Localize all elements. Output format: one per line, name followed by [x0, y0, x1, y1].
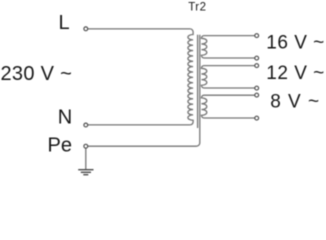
svg-text:12 V ~: 12 V ~	[266, 63, 324, 84]
core line 2 with earth lead	[88, 35, 200, 147]
svg-text:8 V ~: 8 V ~	[270, 92, 320, 113]
secondary winding section A (16 V)	[201, 36, 254, 58]
svg-text:Tr2: Tr2	[188, 1, 206, 13]
secondary winding section C (8 V)	[201, 95, 254, 118]
terminal 12V top	[255, 64, 259, 68]
ground stem	[85, 148, 87, 169]
svg-text:N: N	[58, 107, 72, 129]
terminal N	[84, 123, 88, 127]
terminal L	[84, 27, 88, 31]
terminal 12V bottom	[255, 86, 259, 90]
wire L terminal to primary top	[88, 28, 190, 30]
core line 1	[197, 35, 199, 128]
svg-text:16 V ~: 16 V ~	[266, 33, 324, 54]
terminal 16V bottom	[255, 56, 259, 60]
wire N terminal to primary bottom	[88, 124, 190, 126]
ground symbol	[78, 170, 93, 175]
primary winding Tr2 left coil	[188, 29, 193, 125]
terminal 8V bottom	[255, 116, 259, 120]
terminal 16V top	[255, 34, 259, 38]
terminal Pe	[84, 144, 88, 148]
secondary winding section B (12 V)	[201, 66, 254, 88]
svg-text:230 V ~: 230 V ~	[1, 63, 73, 85]
terminal 8V top	[255, 93, 259, 97]
svg-text:Pe: Pe	[48, 135, 72, 157]
svg-text:L: L	[59, 12, 70, 34]
